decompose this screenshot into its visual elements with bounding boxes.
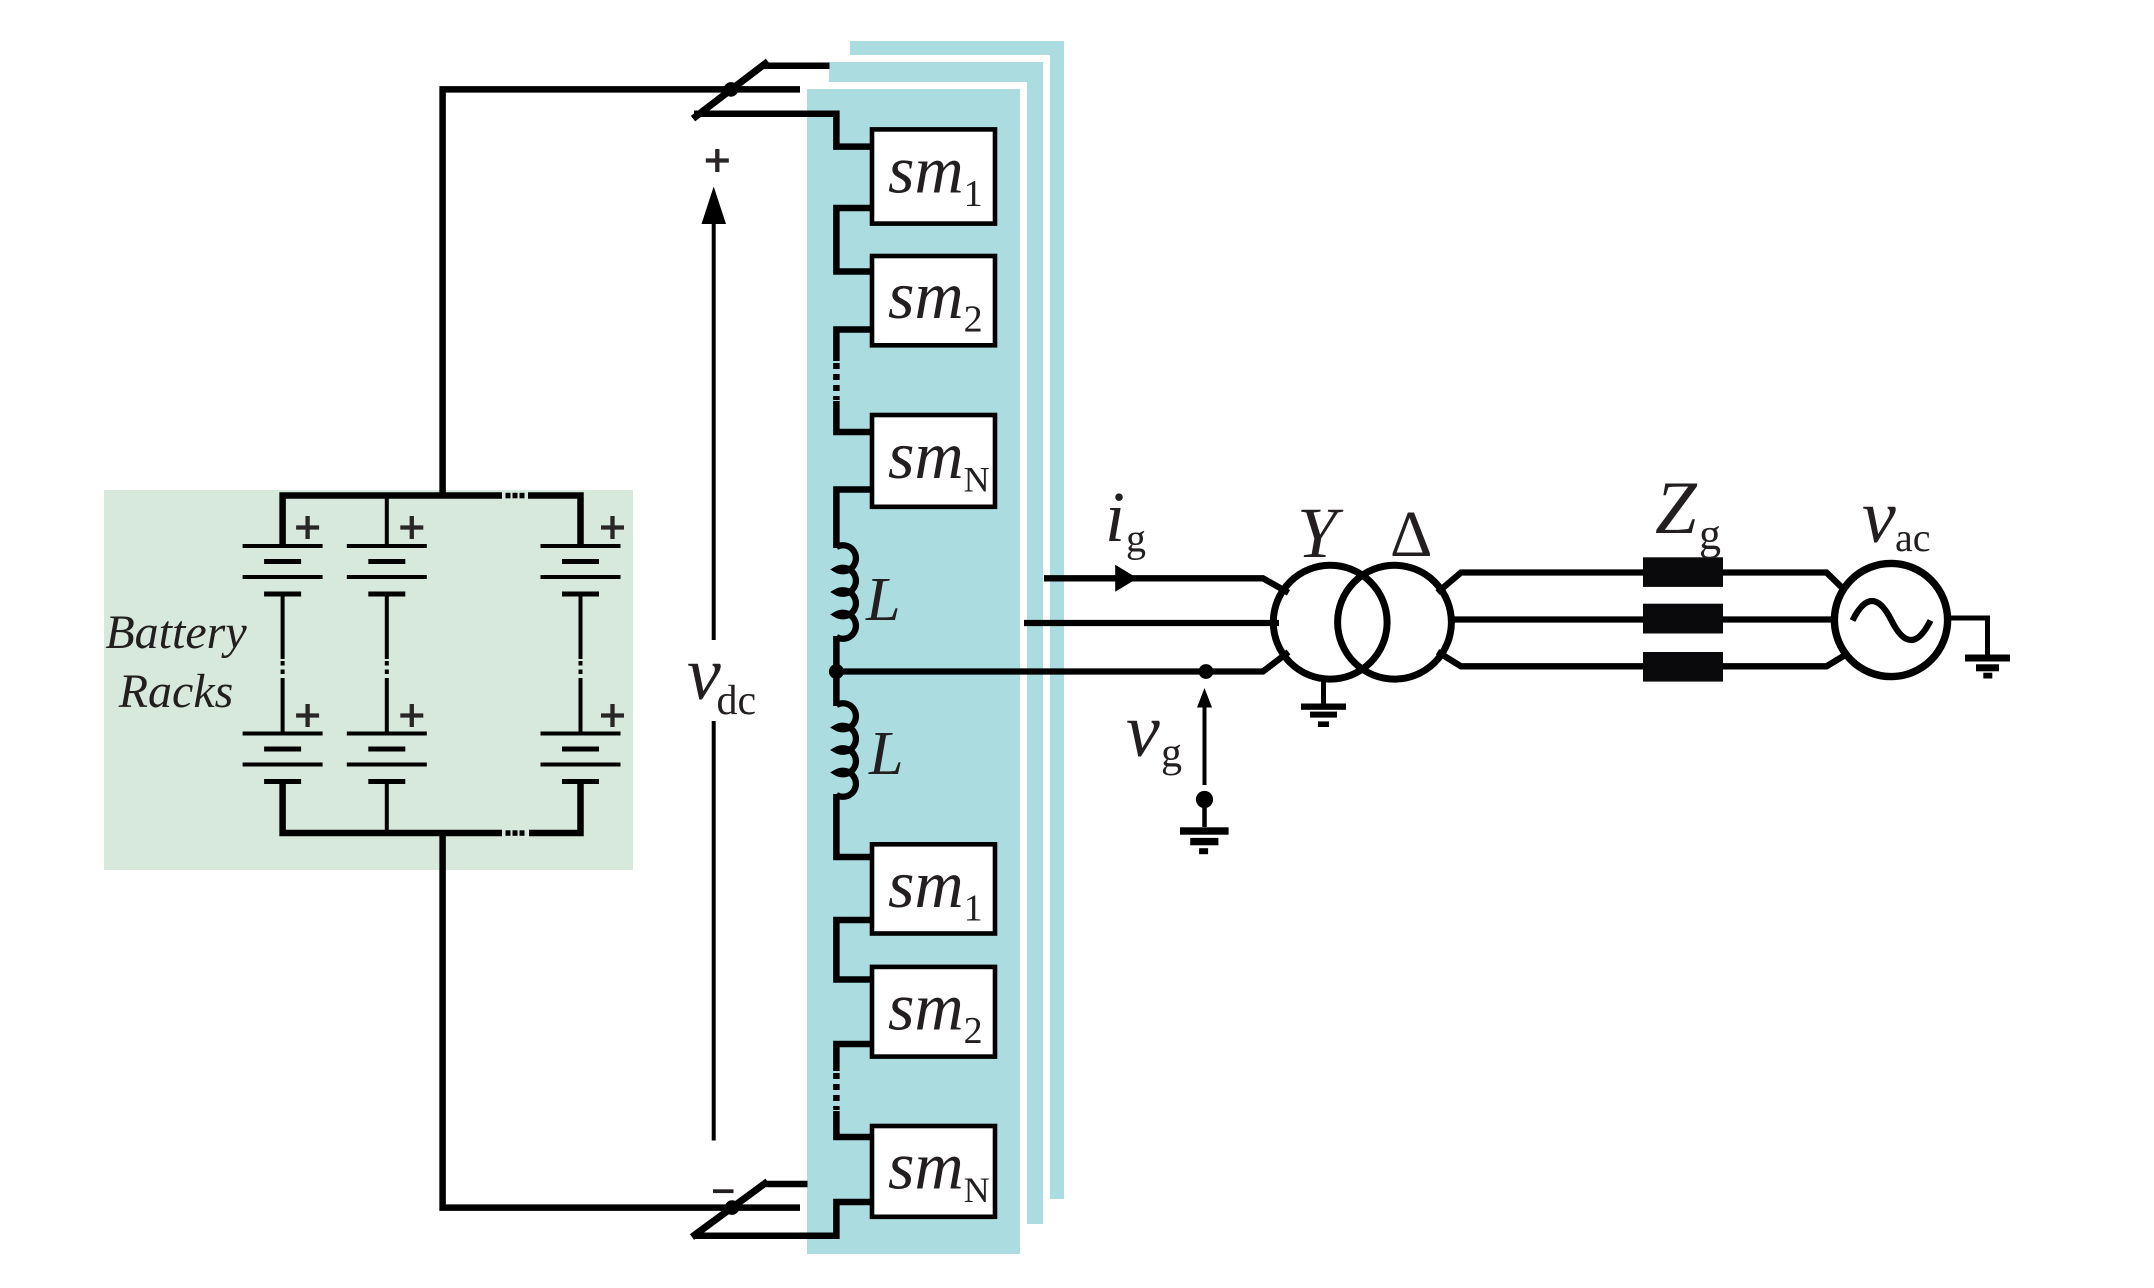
plus sign col3 top <box>601 516 624 539</box>
vdc arrow <box>702 187 727 225</box>
battery stack column 2 bottom <box>347 732 427 785</box>
svg-text:v: v <box>1126 689 1160 773</box>
svg-text:ac: ac <box>1895 515 1931 560</box>
wire dc negative: battery bottom bus down and right <box>443 833 808 1208</box>
svg-text:g: g <box>1126 516 1146 561</box>
grid line 1 (top) <box>1438 573 1846 593</box>
wire dc positive: battery top bus up and right to converter <box>443 89 807 495</box>
grid line 2 (mid) <box>1451 616 1836 622</box>
svg-text:L: L <box>868 720 903 788</box>
vac ground wire <box>1948 618 1988 655</box>
phase node <box>829 664 844 679</box>
transformer Y winding <box>1273 565 1387 679</box>
battery stack column 3 top <box>541 544 621 734</box>
wire coil to node <box>833 636 840 706</box>
bottom junction node <box>725 1200 740 1215</box>
vg ground <box>1180 827 1229 834</box>
svg-text:dc: dc <box>717 678 757 724</box>
battery stack column 1 top <box>243 544 323 734</box>
submodule sm1 lower <box>872 844 995 933</box>
plus sign col1 top <box>296 516 319 539</box>
dotted continuation upper arm <box>833 363 840 400</box>
transformer neutral ground <box>1321 678 1326 704</box>
wire coil to lower sm1 <box>836 794 873 857</box>
grid impedance Zg block 2 <box>1643 604 1723 634</box>
upper arm inductor L <box>836 545 856 639</box>
vac source circle <box>1834 563 1947 676</box>
svg-text:Z: Z <box>1655 467 1698 550</box>
grid impedance Zg block 1 <box>1643 557 1723 587</box>
vg arrow <box>1197 688 1212 708</box>
battery stack column 3 bottom <box>541 732 621 785</box>
wire sm1 to sm2 lower arm <box>836 920 873 980</box>
minus label vdc <box>713 1189 734 1193</box>
plus sign col3 bottom <box>601 704 624 727</box>
bottom dc bus of battery racks <box>283 779 502 833</box>
svg-text:i: i <box>1105 477 1125 557</box>
transformer D winding <box>1338 565 1452 679</box>
wire sm2 down lower arm <box>836 1044 873 1071</box>
submodule sm1 upper <box>872 129 995 223</box>
svg-text:Racks: Racks <box>118 665 234 718</box>
svg-text:Y: Y <box>1297 493 1344 573</box>
wire into smN upper arm <box>836 401 873 432</box>
dotted continuation lower arm <box>833 1073 840 1110</box>
bottom wire into smN <box>694 1202 873 1236</box>
submodule smN upper <box>872 415 995 507</box>
svg-text:Δ: Δ <box>1390 498 1432 571</box>
top busbar diagonal <box>693 62 768 119</box>
svg-text:L: L <box>865 566 900 634</box>
grid line 3 (bottom) <box>1438 652 1847 667</box>
svg-text:g: g <box>1699 510 1721 559</box>
plus label vdc <box>706 149 729 172</box>
vac ground <box>1965 655 2010 662</box>
bottom busbar tap stub <box>766 1181 808 1188</box>
top busbar tap stub to middle layer <box>764 62 830 69</box>
bottom busbar diagonal <box>692 1182 768 1238</box>
svg-text:v: v <box>1862 475 1896 559</box>
wire sm2 down upper arm <box>836 330 873 362</box>
plus sign col2 bottom <box>400 704 423 727</box>
grid impedance Zg block 3 <box>1643 652 1723 682</box>
wire smN to upper inductor <box>836 490 873 549</box>
lower arm inductor L <box>836 703 856 797</box>
battery racks background box <box>104 490 633 870</box>
converter panel front layer <box>804 86 1024 1258</box>
wire sm1 to sm2 upper arm <box>836 208 873 272</box>
vg node <box>1199 664 1214 679</box>
converter panel back layer <box>850 41 1064 1199</box>
svg-text:g: g <box>1161 731 1182 777</box>
top dc bus of battery racks <box>283 496 502 549</box>
phase line b (middle leg) <box>1024 620 1279 626</box>
battery stack column 1 bottom <box>243 732 323 785</box>
phase line a (front leg) to transformer <box>836 652 1288 672</box>
phase line c (back leg) <box>1044 578 1289 593</box>
svg-text:Battery: Battery <box>105 606 247 659</box>
wire into smN lower arm <box>836 1111 873 1137</box>
plus sign col1 bottom <box>296 704 319 727</box>
top junction node <box>724 82 739 97</box>
converter panel middle layer <box>826 59 1047 1228</box>
submodule sm2 lower <box>872 967 995 1057</box>
wire col2 to bottom bus <box>385 779 389 833</box>
wire col2 to top bus <box>385 496 389 549</box>
submodule sm2 upper <box>872 256 995 345</box>
battery stack column 2 top <box>347 544 427 734</box>
submodule smN lower <box>872 1126 995 1217</box>
vg reference ball <box>1196 791 1213 808</box>
plus sign col2 top <box>400 516 423 539</box>
ig arrowhead <box>1115 565 1137 592</box>
vac sine wave <box>1853 601 1931 640</box>
top wire into sm1 <box>694 114 873 147</box>
